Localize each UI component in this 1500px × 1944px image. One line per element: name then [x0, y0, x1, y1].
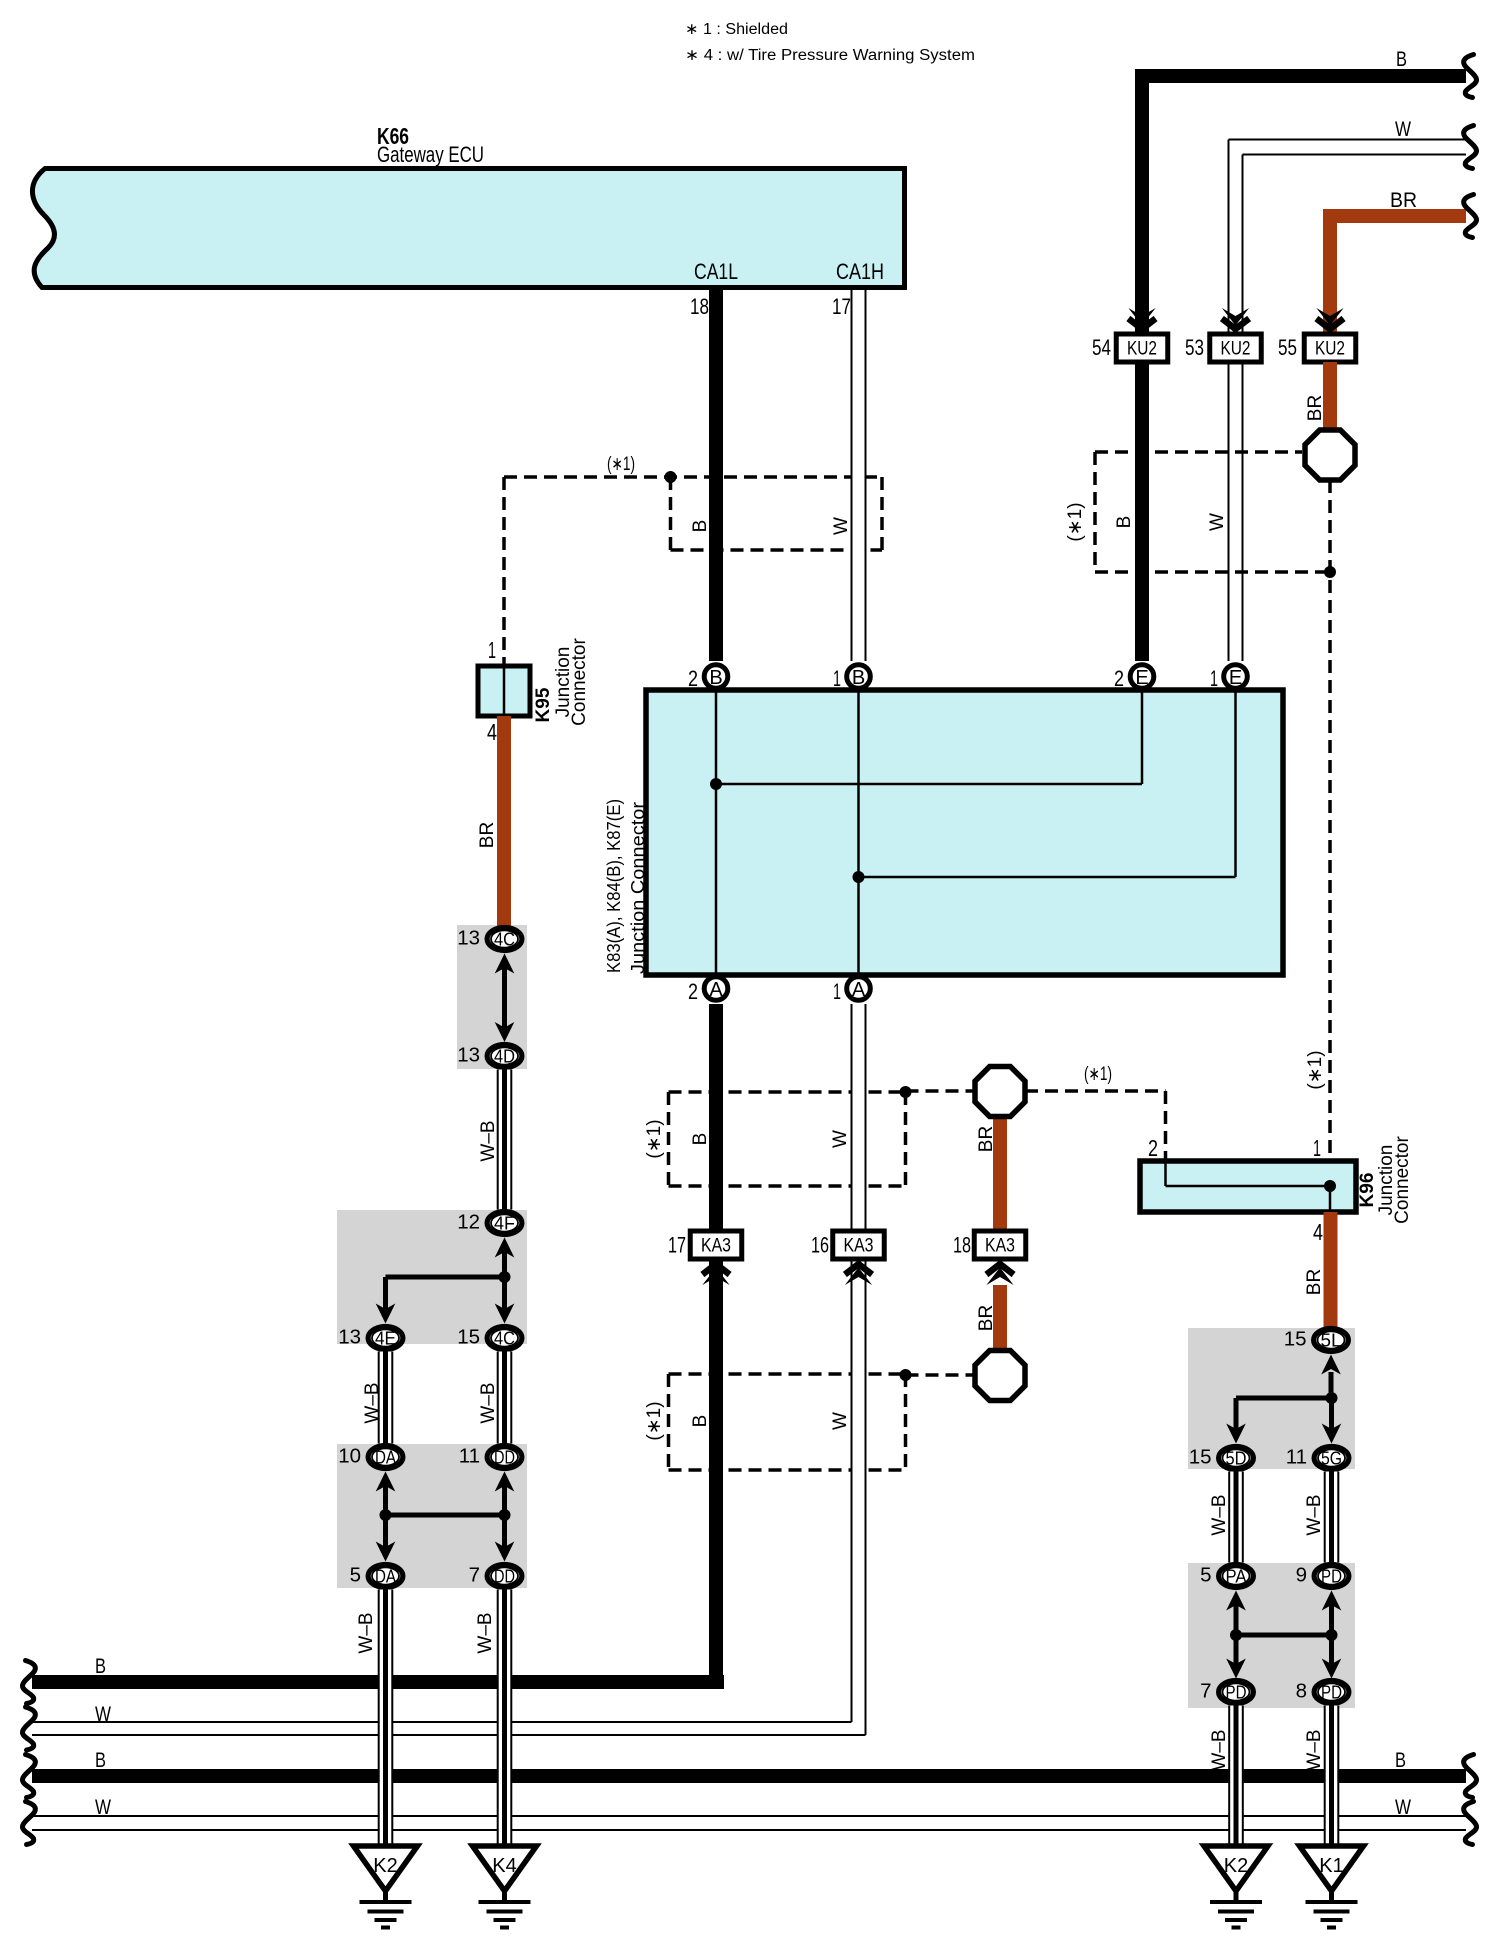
- shield box 3 left edge: [667, 1374, 671, 1470]
- chevron arrow into KU2 54: [1128, 308, 1155, 326]
- svg-text:KU2: KU2: [1127, 338, 1157, 360]
- shield wire octagon A to K96 pin 2 vertical: [1164, 1091, 1168, 1161]
- svg-text:15: 15: [1189, 1446, 1212, 1469]
- chevron arrow into KA3 18: [986, 1268, 1013, 1286]
- inner wire B1-A1: [857, 692, 860, 973]
- connector oval DD-11: [487, 1446, 522, 1469]
- shield box 1R bottom edge: [1095, 570, 1330, 574]
- svg-text:BR: BR: [1304, 1269, 1325, 1295]
- wire down to DA5: [383, 1515, 388, 1548]
- break symbol W bus2 left: [22, 1802, 35, 1845]
- shield wire to octagon B: [906, 1373, 976, 1377]
- svg-text:(∗1): (∗1): [1084, 1064, 1112, 1085]
- shield box 3 bottom edge: [669, 1468, 906, 1472]
- pin circle B2: [704, 665, 728, 689]
- wire BR KA3 18 to octagon B: [993, 1285, 1007, 1351]
- svg-text:1: 1: [833, 666, 841, 691]
- connector oval 4C-13: [487, 928, 522, 951]
- svg-text:Connector: Connector: [569, 638, 590, 726]
- svg-text:PD: PD: [1321, 1682, 1342, 1703]
- svg-text:CA1L: CA1L: [694, 259, 738, 284]
- svg-text:B: B: [690, 1133, 711, 1146]
- chevron arrow into KA3 17: [702, 1268, 729, 1286]
- connector KA3 16 box: [833, 1231, 885, 1259]
- wire BR octagon A to KA3 18: [993, 1116, 1007, 1231]
- bus W upper bottom line: [32, 1734, 866, 1736]
- svg-text:2: 2: [1148, 1135, 1158, 1161]
- arrow up into DD11: [495, 1472, 515, 1492]
- svg-text:A: A: [709, 979, 723, 1001]
- svg-text:DA: DA: [375, 1447, 397, 1468]
- wire DA10 to junction: [383, 1486, 388, 1515]
- wire PD9 to junction: [1329, 1605, 1334, 1635]
- svg-text:4: 4: [1313, 1219, 1323, 1245]
- connector oval 5D-15: [1219, 1447, 1254, 1470]
- svg-text:K95: K95: [533, 687, 554, 722]
- svg-text:Junction Connector: Junction Connector: [627, 802, 648, 974]
- svg-text:W: W: [95, 1796, 111, 1819]
- svg-text:13: 13: [338, 1326, 361, 1349]
- chevron arrow into KU2 53: [1222, 308, 1249, 326]
- svg-text:DD: DD: [494, 1566, 515, 1587]
- break symbol B bus2 left: [22, 1755, 35, 1798]
- svg-text:2: 2: [1114, 666, 1124, 691]
- bus W upper top line: [32, 1721, 852, 1723]
- svg-text:KU2: KU2: [1315, 338, 1345, 360]
- svg-text:8: 8: [1296, 1680, 1307, 1703]
- svg-text:11: 11: [459, 1445, 480, 1468]
- svg-text:5L: 5L: [1321, 1330, 1342, 1351]
- shield box 1 bottom edge: [671, 548, 883, 552]
- gray group box PA/PD: [1188, 1563, 1355, 1708]
- svg-text:2: 2: [688, 666, 698, 691]
- svg-text:4D: 4D: [494, 1046, 515, 1067]
- svg-text:W–B: W–B: [362, 1382, 383, 1423]
- ground K2 left: [354, 1846, 418, 1891]
- svg-text:BR: BR: [1390, 189, 1417, 212]
- break symbol W top right: [1464, 126, 1477, 169]
- arrow down into 4D: [495, 1022, 515, 1042]
- svg-text:16: 16: [811, 1233, 829, 1258]
- shield box 1R top edge: [1095, 450, 1302, 454]
- connector oval DA-5: [368, 1565, 403, 1588]
- pin circle E2: [1130, 665, 1154, 689]
- wire down to 5G: [1329, 1398, 1334, 1431]
- connector KA3 18 box: [974, 1231, 1026, 1259]
- break symbol BR top right: [1464, 195, 1477, 238]
- wire W-B 5G to PD: [1324, 1472, 1339, 1563]
- inner wire B2-E2 horizontal: [716, 783, 1142, 786]
- wire junction horizontal R2: [1236, 1633, 1332, 1638]
- svg-text:7: 7: [469, 1564, 480, 1587]
- wire down to 4E: [383, 1277, 388, 1310]
- svg-text:B: B: [1395, 1749, 1406, 1772]
- wire W-B 4E to DA: [378, 1352, 393, 1444]
- chevron arrow into KA3 16: [845, 1268, 872, 1286]
- junction dot shield 3: [900, 1369, 912, 1381]
- svg-text:15: 15: [1284, 1328, 1307, 1351]
- svg-text:15: 15: [457, 1326, 480, 1349]
- svg-text:4C: 4C: [494, 1328, 515, 1349]
- svg-text:4C: 4C: [494, 929, 515, 950]
- svg-text:(∗1): (∗1): [1065, 502, 1086, 541]
- svg-text:PD: PD: [1226, 1682, 1247, 1703]
- connector oval 4E-13: [368, 1327, 403, 1350]
- svg-text:K1: K1: [1319, 1855, 1343, 1877]
- wire down to PD7: [1234, 1635, 1239, 1668]
- svg-text:W: W: [1395, 1796, 1411, 1819]
- svg-text:55: 55: [1278, 335, 1297, 360]
- gray group box 4C/4D: [457, 925, 527, 1069]
- shield wire to octagon A: [906, 1089, 976, 1093]
- svg-text:PD: PD: [1321, 1566, 1342, 1587]
- wire B KU2 54 vertical: [1135, 76, 1149, 334]
- connector oval PD-9: [1314, 1565, 1349, 1588]
- svg-text:5: 5: [1200, 1564, 1211, 1587]
- wire B KU2 54 to big box pin E2: [1135, 362, 1149, 661]
- svg-text:1: 1: [833, 979, 841, 1004]
- svg-text:B: B: [690, 520, 711, 533]
- svg-text:KA3: KA3: [844, 1235, 874, 1257]
- svg-text:W: W: [831, 517, 852, 535]
- svg-text:W–B: W–B: [475, 1612, 496, 1653]
- svg-text:5D: 5D: [1226, 1448, 1247, 1469]
- svg-text:KA3: KA3: [701, 1235, 731, 1257]
- wire B CA1L pin18 vertical: [709, 290, 723, 661]
- junction dot R2 right: [1326, 1629, 1338, 1641]
- bus B upper horizontal: [32, 1675, 724, 1689]
- break symbol B bus2 right: [1464, 1755, 1477, 1798]
- arrow up into 5L: [1321, 1355, 1341, 1375]
- wire 5L to junction: [1329, 1372, 1334, 1398]
- svg-text:(∗1): (∗1): [1305, 1050, 1326, 1089]
- junction dot shield 2: [900, 1086, 912, 1098]
- arrow down into 4E: [376, 1304, 396, 1324]
- octagon shield terminal B: [975, 1351, 1025, 1401]
- svg-text:DA: DA: [375, 1566, 397, 1587]
- connector KA3 17 box: [690, 1231, 742, 1259]
- shield box 2 left edge: [667, 1092, 671, 1186]
- svg-text:18: 18: [690, 294, 709, 319]
- wire W-B PD8 to ground K1: [1324, 1706, 1339, 1847]
- connector oval 5G-11: [1314, 1447, 1349, 1470]
- svg-text:W: W: [830, 1412, 851, 1430]
- gray group box 4F/4E/4C: [337, 1210, 527, 1344]
- pin circle E1: [1224, 665, 1248, 689]
- wire W-B PD7 to ground K2 right: [1229, 1706, 1244, 1847]
- wire down to 4C15: [502, 1277, 507, 1310]
- svg-text:5: 5: [350, 1564, 361, 1587]
- svg-text:BR: BR: [976, 1126, 997, 1152]
- connector oval 4C-15: [487, 1327, 522, 1350]
- svg-text:BR: BR: [976, 1305, 997, 1331]
- arrow down into 5G: [1322, 1424, 1342, 1444]
- K96 inner wire pin2 drop: [1164, 1163, 1167, 1186]
- junction connector K83/K84/K87 box: [646, 690, 1283, 975]
- wire W-B 5D to PA: [1229, 1472, 1244, 1563]
- svg-text:54: 54: [1092, 335, 1111, 360]
- break symbol W bus2 right: [1464, 1802, 1477, 1845]
- svg-text:17: 17: [832, 294, 851, 319]
- connector KU2 54 box: [1116, 334, 1168, 362]
- svg-text:B: B: [709, 667, 722, 689]
- wire W KA3 16 to bus corner: [851, 1259, 867, 1723]
- shield box 3 right edge: [904, 1374, 908, 1470]
- svg-text:W–B: W–B: [356, 1612, 377, 1653]
- arrow down into PD7: [1226, 1659, 1246, 1679]
- connector KU2 55 box: [1304, 334, 1356, 362]
- svg-text:W–B: W–B: [478, 1120, 499, 1161]
- connector oval 4F-12: [487, 1212, 522, 1235]
- svg-text:B: B: [95, 1749, 106, 1772]
- inner wire B2-A2: [715, 692, 718, 973]
- svg-text:∗ 4 : w/ Tire Pressure Warning: ∗ 4 : w/ Tire Pressure Warning System: [685, 47, 975, 64]
- svg-text:W–B: W–B: [478, 1382, 499, 1423]
- bus W lower bottom line: [32, 1829, 1466, 1831]
- wire BR K95 to 4C: [497, 716, 511, 927]
- wire W-B 4C15 to DD: [497, 1352, 512, 1444]
- wire junction horizontal L2: [386, 1275, 505, 1280]
- wire 4C-4D: [502, 968, 507, 1035]
- svg-text:(∗1): (∗1): [644, 1119, 665, 1158]
- wire B KA3 17 to bus corner: [709, 1259, 723, 1689]
- wire W-B DA5 to ground K2: [378, 1590, 393, 1847]
- svg-text:13: 13: [457, 927, 480, 950]
- wire junction horizontal R1: [1236, 1396, 1332, 1401]
- svg-text:1: 1: [488, 637, 496, 663]
- connector oval 5L-15: [1314, 1329, 1349, 1352]
- shield box 1R left edge: [1093, 452, 1097, 572]
- junction dot B1: [853, 871, 865, 883]
- svg-text:(∗1): (∗1): [644, 1401, 665, 1440]
- svg-text:10: 10: [338, 1445, 361, 1468]
- shield box 2 top edge: [669, 1090, 906, 1094]
- svg-text:E: E: [1229, 667, 1242, 689]
- inner wire E1 drop: [1234, 692, 1237, 877]
- junction of shield wire: [665, 471, 677, 483]
- wire W-B DD7 to ground K4: [497, 1590, 512, 1847]
- wire BR K96 to 5L: [1324, 1212, 1338, 1327]
- svg-text:B: B: [690, 1415, 711, 1428]
- wire PA5 to junction: [1234, 1605, 1239, 1635]
- inner wire B1-E1 horizontal: [859, 876, 1236, 879]
- pin circle A2: [704, 977, 728, 1001]
- svg-text:BR: BR: [477, 822, 498, 848]
- svg-text:5G: 5G: [1321, 1448, 1342, 1469]
- svg-text:W–B: W–B: [1304, 1729, 1325, 1770]
- arrow up into 4C: [495, 954, 515, 974]
- junction connector K95 box: [478, 666, 530, 716]
- svg-text:W: W: [1207, 513, 1228, 531]
- svg-text:4F: 4F: [494, 1213, 515, 1234]
- junction dot B2: [710, 778, 722, 790]
- bus W lower top line: [32, 1815, 1466, 1817]
- wire down to DD7: [502, 1515, 507, 1548]
- shield wire octagon A to K96 pin 2 horizontal: [1025, 1089, 1166, 1093]
- connector KU2 53 box: [1210, 334, 1262, 362]
- connector oval 4D-13: [487, 1045, 522, 1068]
- svg-text:KA3: KA3: [985, 1235, 1015, 1257]
- arrow down into DD7: [495, 1542, 515, 1562]
- shield box 1 top edge: [504, 475, 882, 479]
- svg-text:B: B: [1396, 48, 1407, 71]
- junction dot L3 right: [499, 1509, 511, 1521]
- gray group box 5L/5D/5G: [1188, 1328, 1355, 1469]
- wire W-B 4D to 4F: [497, 1070, 512, 1210]
- arrow down into 4C15: [495, 1304, 515, 1324]
- ground K4: [473, 1846, 537, 1891]
- gray group box DA/DD: [337, 1444, 527, 1588]
- connector oval PD-7: [1219, 1681, 1254, 1704]
- svg-text:K2: K2: [1224, 1855, 1248, 1877]
- svg-text:13: 13: [457, 1044, 480, 1067]
- svg-text:B: B: [95, 1655, 106, 1678]
- break symbol B top right: [1464, 55, 1477, 98]
- junction dot shield 1R: [1324, 566, 1336, 578]
- shield box 1 left edge: [669, 477, 673, 550]
- shield box 2 right edge: [904, 1092, 908, 1186]
- junction connector K96 box: [1140, 1161, 1356, 1212]
- ground K1: [1300, 1846, 1364, 1891]
- svg-text:CA1H: CA1H: [836, 259, 884, 284]
- svg-text:Connector: Connector: [1392, 1136, 1413, 1224]
- junction dot L2: [499, 1271, 511, 1283]
- svg-text:E: E: [1135, 667, 1148, 689]
- arrow up into PD9: [1322, 1591, 1342, 1611]
- wire W KU2 53 to big box pin E1: [1228, 362, 1230, 661]
- svg-text:18: 18: [953, 1233, 971, 1258]
- svg-text:17: 17: [668, 1233, 686, 1258]
- svg-text:1: 1: [1210, 666, 1218, 691]
- svg-text:W–B: W–B: [1304, 1494, 1325, 1535]
- svg-text:1: 1: [1313, 1135, 1321, 1161]
- wire W top right horizontal: [1229, 139, 1467, 141]
- svg-text:K96: K96: [1357, 1173, 1378, 1208]
- K96 inner wire pin4 drop: [1329, 1186, 1332, 1210]
- svg-text:B: B: [1114, 516, 1135, 529]
- svg-text:DD: DD: [494, 1447, 515, 1468]
- junction dot R2 left: [1230, 1629, 1242, 1641]
- inner wire E2 drop: [1141, 692, 1144, 784]
- svg-text:∗ 1 : Shielded: ∗ 1 : Shielded: [685, 21, 788, 38]
- wire junction horizontal L3: [386, 1513, 505, 1518]
- wire 4F to junction: [502, 1252, 507, 1277]
- wire BR top right horizontal: [1323, 209, 1466, 223]
- arrow up into DA10: [376, 1472, 396, 1492]
- shield dashed wire from (*1) to K95 pin 1: [502, 477, 506, 666]
- break symbol W bus1 left: [22, 1707, 35, 1750]
- connector oval DD-7: [487, 1565, 522, 1588]
- svg-text:4E: 4E: [375, 1328, 396, 1349]
- chevron arrow into KU2 55: [1316, 308, 1343, 326]
- connector oval PA-5: [1219, 1565, 1254, 1588]
- wire W big box to KA3 16: [851, 1004, 867, 1231]
- connector oval DA-10: [368, 1446, 403, 1469]
- svg-text:KU2: KU2: [1221, 338, 1251, 360]
- shield dashed wire octagon to K96 pin 1: [1328, 480, 1332, 1161]
- arrow up into PA5: [1226, 1591, 1246, 1611]
- svg-text:W–B: W–B: [1209, 1494, 1230, 1535]
- svg-text:53: 53: [1185, 335, 1204, 360]
- svg-text:PA: PA: [1226, 1566, 1248, 1587]
- gateway ECU K66 box: [32, 169, 904, 288]
- connector oval PD-8: [1314, 1681, 1349, 1704]
- svg-text:9: 9: [1296, 1564, 1307, 1587]
- K96 junction dot: [1324, 1180, 1336, 1192]
- svg-text:7: 7: [1200, 1680, 1211, 1703]
- wire DD11 to junction: [502, 1486, 507, 1515]
- svg-text:B: B: [852, 667, 865, 689]
- K96 inner wire horizontal: [1166, 1185, 1331, 1188]
- svg-text:4: 4: [487, 719, 497, 745]
- svg-text:A: A: [852, 979, 866, 1001]
- wire BR KU2 55 to octagon: [1323, 362, 1337, 431]
- wire W KU2 53 vertical: [1228, 140, 1230, 335]
- ground K2 right: [1204, 1846, 1268, 1891]
- svg-text:11: 11: [1286, 1446, 1307, 1469]
- svg-text:2: 2: [688, 979, 698, 1004]
- svg-text:K4: K4: [492, 1855, 516, 1877]
- svg-text:W: W: [830, 1130, 851, 1148]
- svg-text:W–B: W–B: [1209, 1729, 1230, 1770]
- svg-text:W: W: [1395, 118, 1411, 141]
- break symbol B bus1 left: [22, 1661, 35, 1704]
- wire B top right horizontal: [1135, 69, 1466, 83]
- shield box 1 right edge: [880, 477, 884, 550]
- octagon shield terminal A: [975, 1067, 1025, 1117]
- arrow down into 5D: [1226, 1424, 1246, 1444]
- pin circle A1: [847, 977, 871, 1001]
- svg-text:K83(A), K84(B), K87(E): K83(A), K84(B), K87(E): [603, 799, 624, 973]
- wire W CA1H pair vertical: [851, 290, 867, 661]
- octagon shield terminal right: [1305, 430, 1355, 480]
- svg-text:Gateway ECU: Gateway ECU: [377, 142, 484, 167]
- junction dot R1: [1326, 1392, 1338, 1404]
- arrow down into DA5: [376, 1542, 396, 1562]
- arrow down into PD8: [1322, 1659, 1342, 1679]
- wire down to 5D: [1234, 1398, 1239, 1431]
- K95 divider: [503, 668, 506, 714]
- junction dot L3 left: [380, 1509, 392, 1521]
- pin circle B1: [847, 665, 871, 689]
- svg-text:12: 12: [457, 1211, 480, 1234]
- wire down to PD8: [1329, 1635, 1334, 1668]
- wire BR KU2 55 vertical: [1323, 216, 1337, 334]
- shield box 3 top edge: [669, 1372, 906, 1376]
- shield box 2 bottom edge: [669, 1184, 906, 1188]
- bus B lower: [32, 1769, 1466, 1783]
- wire B big box to KA3 17: [709, 1004, 723, 1231]
- svg-text:K2: K2: [373, 1855, 397, 1877]
- svg-text:BR: BR: [1305, 395, 1326, 421]
- arrow up into 4F: [495, 1238, 515, 1258]
- svg-text:(∗1): (∗1): [607, 454, 635, 475]
